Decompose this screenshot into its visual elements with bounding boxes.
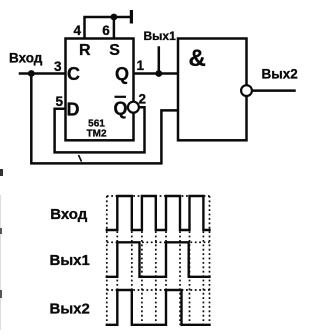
svg-text:Вых2: Вых2 (262, 67, 298, 82)
svg-text:Q: Q (115, 64, 129, 84)
svg-text:5: 5 (56, 94, 64, 109)
svg-text:4: 4 (74, 23, 82, 38)
svg-text:D: D (67, 100, 80, 120)
svg-text:R: R (79, 42, 91, 59)
svg-text:6: 6 (102, 23, 110, 38)
svg-text:Вход: Вход (9, 51, 43, 66)
svg-text:Вход: Вход (50, 206, 88, 223)
svg-text:C: C (67, 64, 80, 84)
svg-text:Q: Q (114, 99, 128, 119)
svg-text:Вых1: Вых1 (50, 252, 90, 269)
svg-text:S: S (109, 42, 120, 59)
svg-text:2: 2 (139, 92, 147, 107)
svg-text:Вых2: Вых2 (50, 301, 90, 318)
svg-text:&: & (189, 45, 206, 72)
svg-text:1: 1 (137, 58, 145, 73)
svg-text:Вых1: Вых1 (144, 29, 177, 43)
svg-text:ТМ2: ТМ2 (87, 128, 107, 139)
svg-text:3: 3 (54, 59, 62, 74)
